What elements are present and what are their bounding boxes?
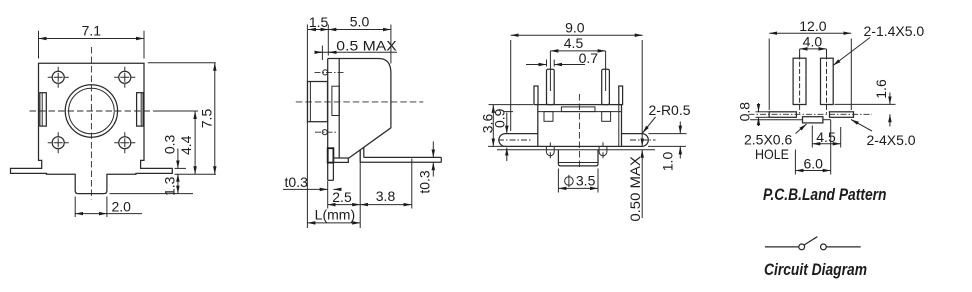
right pin end arc [599, 147, 607, 156]
svg-text:5.0: 5.0 [350, 13, 370, 29]
dim L(mm) [306, 79, 308, 228]
left pin end arc [546, 147, 554, 156]
dim 2.0 [74, 197, 76, 218]
svg-text:6.0: 6.0 [803, 156, 823, 172]
right contact [821, 244, 827, 250]
dim 4.4 [194, 111, 196, 174]
dim 6.0 [794, 150, 796, 175]
dim 0.9 [504, 111, 513, 113]
right pin [602, 69, 610, 104]
right vertical pad [821, 58, 834, 104]
rivet circle top-right [119, 71, 131, 83]
svg-text:t0.3: t0.3 [417, 170, 433, 194]
svg-text:Circuit Diagram: Circuit Diagram [764, 261, 867, 279]
svg-text:0.8: 0.8 [736, 102, 752, 122]
dim 0.5 MAX [321, 46, 323, 61]
dim 2.5 [327, 181, 329, 209]
svg-text:0.50 MAX: 0.50 MAX [627, 155, 643, 221]
dim 4.5 [549, 51, 551, 91]
frame plate front edge [327, 59, 329, 181]
svg-text:2-1.4X5.0: 2-1.4X5.0 [864, 23, 925, 39]
button shaft [558, 150, 598, 166]
bracket fold inner line right [618, 105, 620, 147]
svg-text:7.1: 7.1 [82, 23, 102, 39]
button cap [308, 82, 328, 122]
lower rivet [322, 130, 327, 135]
svg-text:12.0: 12.0 [799, 18, 826, 34]
svg-text:2.0: 2.0 [112, 198, 132, 214]
switch lever [804, 237, 817, 245]
dim 3.6 [489, 104, 534, 106]
front pin lower part [332, 163, 334, 181]
dim 0.50 MAX (shared right extension) [641, 40, 643, 146]
right wire [826, 246, 860, 248]
left pin [547, 69, 555, 104]
svg-text:t0.3: t0.3 [285, 174, 309, 190]
housing outline with chamfer [328, 59, 391, 159]
row centerline [749, 113, 873, 115]
rivet circle bottom-left [52, 137, 64, 149]
svg-text:P.C.B.Land Pattern: P.C.B.Land Pattern [763, 186, 887, 204]
slot guide line [750, 119, 803, 121]
left side tab [40, 93, 47, 126]
frame plate back edge [338, 59, 340, 159]
right land pad [830, 112, 854, 118]
plastic face line [497, 149, 655, 151]
left vertical pad [793, 58, 806, 104]
svg-text:0.5 MAX: 0.5 MAX [336, 37, 397, 53]
dim 1.0 [649, 133, 687, 135]
svg-text:0.7: 0.7 [579, 50, 599, 66]
left contact [799, 244, 805, 250]
left wing [499, 134, 538, 147]
svg-text:2.5X0.6: 2.5X0.6 [744, 131, 792, 147]
svg-text:4.4: 4.4 [178, 135, 194, 155]
rivet circle bottom-right [119, 137, 131, 149]
pad edge extensions [756, 111, 770, 113]
vertical centerline [578, 94, 580, 170]
long rear foot [364, 156, 442, 158]
plunger seen through plate [332, 86, 339, 115]
body [538, 105, 622, 147]
centerline extension for dim 4.4 [157, 110, 199, 112]
svg-text:3.8: 3.8 [376, 188, 396, 204]
dim 1.3 [110, 193, 194, 195]
svg-text:4.5: 4.5 [816, 129, 836, 145]
left land pad [769, 112, 796, 118]
right wing [622, 134, 649, 147]
dim 7.5 [148, 62, 216, 64]
svg-text:2-R0.5: 2-R0.5 [649, 102, 691, 118]
svg-text:2.5: 2.5 [332, 189, 352, 205]
dim 3.8 [411, 159, 413, 209]
horizontal centerline [296, 101, 424, 103]
dim 0.3 [175, 167, 187, 169]
svg-text:7.5: 7.5 [198, 109, 214, 129]
left pin root square [544, 112, 553, 122]
dim 4.0 [799, 49, 801, 58]
dim 12.0 [768, 39, 770, 111]
center button outer circle [65, 85, 117, 137]
interior seam line [538, 111, 622, 113]
svg-text:0.9: 0.9 [492, 108, 508, 128]
svg-text:3.5: 3.5 [576, 173, 596, 189]
front pin (bold cross-section) [328, 148, 334, 162]
dim 4.5 [811, 126, 813, 148]
center button inner circle [69, 88, 115, 134]
left wire [765, 246, 799, 248]
svg-text:0.3: 0.3 [161, 134, 177, 154]
horizontal centerline [30, 110, 157, 112]
vertical centerline [90, 47, 92, 200]
rivet circle top-left [52, 71, 64, 83]
dim 0.8 [758, 103, 760, 112]
short foot [333, 158, 348, 162]
dim 7.1 [38, 31, 40, 59]
switch body outline with bottom notch and leads [11, 63, 173, 193]
dim 1.5 / 5.0 [306, 25, 308, 80]
svg-text:9.0: 9.0 [565, 19, 585, 35]
svg-text:4.0: 4.0 [803, 33, 823, 49]
right bracket tab [619, 86, 623, 105]
center hole slot [803, 117, 823, 123]
center slot [561, 107, 595, 112]
dim 9.0 [510, 40, 512, 131]
dim phi 3.5 [557, 169, 559, 193]
dim 0.7 [546, 60, 548, 67]
svg-text:HOLE: HOLE [755, 146, 789, 162]
svg-text:1.3: 1.3 [161, 176, 177, 196]
svg-text:L(mm): L(mm) [315, 206, 355, 222]
svg-text:1.5: 1.5 [309, 14, 329, 30]
right side tab [137, 93, 144, 126]
dim 1.6 [835, 103, 896, 105]
svg-text:4.5: 4.5 [564, 35, 584, 51]
svg-text:1.0: 1.0 [660, 152, 676, 172]
dim t0.3 right [432, 142, 434, 158]
upper rivet [323, 70, 328, 75]
left bracket tab [534, 86, 538, 105]
svg-text:1.6: 1.6 [873, 79, 889, 99]
svg-text:2-4X5.0: 2-4X5.0 [867, 132, 916, 148]
right pin root square [602, 112, 611, 122]
